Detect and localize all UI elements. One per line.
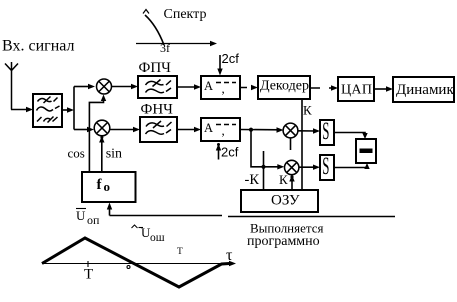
svg-text:2cf: 2cf xyxy=(221,145,239,160)
svg-text:ош: ош xyxy=(150,232,165,244)
svg-text:программно: программно xyxy=(247,234,320,249)
wire S2 to subtractor xyxy=(334,163,370,169)
subtractor block xyxy=(356,139,376,163)
net sin to M2 xyxy=(99,136,104,172)
integrator S2 xyxy=(320,153,334,181)
svg-text:Декодер: Декодер xyxy=(260,79,309,94)
svg-text:T: T xyxy=(177,247,183,257)
wire FNCh to ADC2 xyxy=(177,127,201,132)
net cos to M1 xyxy=(89,95,106,173)
mixer M2 xyxy=(94,120,110,136)
wire antenna to preselector xyxy=(11,107,33,112)
svg-text:sin: sin xyxy=(106,147,122,162)
mixer M4 xyxy=(285,160,299,174)
wire junction down to M4 row xyxy=(251,130,284,170)
oscillator f0 xyxy=(82,172,136,202)
software boundary line xyxy=(228,216,395,218)
svg-text:U: U xyxy=(76,208,86,223)
svg-text:ЦАП: ЦАП xyxy=(341,82,372,97)
IF filter FPCh xyxy=(138,76,177,98)
svg-text:S: S xyxy=(322,153,329,181)
stub below M3 xyxy=(290,138,292,150)
svg-text:o: o xyxy=(104,179,111,194)
svg-text:оп: оп xyxy=(87,213,100,227)
svg-text:S: S xyxy=(322,118,329,146)
svg-text:А: А xyxy=(204,79,213,93)
svg-text:-К: -К xyxy=(245,172,260,188)
svg-text:ФНЧ: ФНЧ xyxy=(141,102,174,118)
spectrum arrow tip xyxy=(143,10,149,14)
svg-text:T: T xyxy=(84,267,93,283)
clock 2cf arrow into ADC2 xyxy=(216,143,221,160)
speaker block xyxy=(393,77,454,102)
LP filter FNCh xyxy=(140,117,177,142)
svg-text:ФПЧ: ФПЧ xyxy=(139,60,172,76)
wire preselector to junction xyxy=(62,87,74,130)
waveform axis tau xyxy=(42,261,236,267)
label Uop xyxy=(76,208,100,227)
mixer M1 xyxy=(97,79,112,94)
svg-text:А: А xyxy=(204,121,213,135)
svg-text:Спектр: Спектр xyxy=(164,7,207,22)
spectrum sketch axis xyxy=(136,41,217,46)
ADC2 U4 xyxy=(201,118,240,141)
svg-text:3f: 3f xyxy=(160,41,170,55)
wire ADC1 to decoder xyxy=(240,85,258,90)
decoder U5 xyxy=(258,76,310,99)
wire FPCh to ADC1 xyxy=(177,84,201,89)
error waveform triangle xyxy=(42,238,230,287)
DAC U6 xyxy=(338,77,374,101)
net K from decoder xyxy=(301,99,303,190)
RAM block xyxy=(241,190,318,212)
wire M3 to S1 xyxy=(298,128,320,133)
wire M1 to IF filter xyxy=(112,84,139,89)
integrator S1 xyxy=(320,118,334,146)
antenna W1 xyxy=(5,62,18,110)
wire DAC to speaker xyxy=(374,86,393,91)
net -K from RAM xyxy=(263,151,265,190)
junction node on -K line xyxy=(261,165,265,169)
mixer M3 xyxy=(283,123,298,138)
svg-text:Динамик: Динамик xyxy=(396,82,454,98)
spectrum curve xyxy=(145,15,164,45)
svg-text:К: К xyxy=(303,103,312,118)
wire S1 to subtractor xyxy=(334,133,368,140)
wire junction to mixer M2 xyxy=(74,127,94,132)
ADC1 U3 xyxy=(201,76,240,99)
preselector filter A1 xyxy=(33,94,62,127)
wire ADC2 to M3 xyxy=(240,127,284,132)
clock 2cf arrow into ADC1 xyxy=(217,55,222,76)
svg-text:К: К xyxy=(279,172,288,187)
wire M2 to LP filter xyxy=(110,127,140,132)
wire M4 to S2 xyxy=(299,165,320,170)
svg-text:,: , xyxy=(222,123,225,138)
net K from RAM to M4 xyxy=(289,175,294,190)
svg-text:cos: cos xyxy=(68,146,85,161)
svg-text:ОЗУ: ОЗУ xyxy=(271,193,300,209)
svg-text:,: , xyxy=(222,81,225,96)
wire decoder to DAC xyxy=(310,85,338,90)
feedback wire Uosh into f0 xyxy=(107,203,222,216)
label Uosh xyxy=(132,225,165,244)
svg-text:f: f xyxy=(97,177,103,193)
svg-text:2cf: 2cf xyxy=(222,51,240,66)
svg-text:τ: τ xyxy=(226,247,233,264)
svg-text:Вх. сигнал: Вх. сигнал xyxy=(2,38,74,55)
wire junction to mixer M1 xyxy=(74,84,95,89)
zero crossing mark xyxy=(127,266,130,269)
junction node after ADC2 xyxy=(249,128,253,132)
